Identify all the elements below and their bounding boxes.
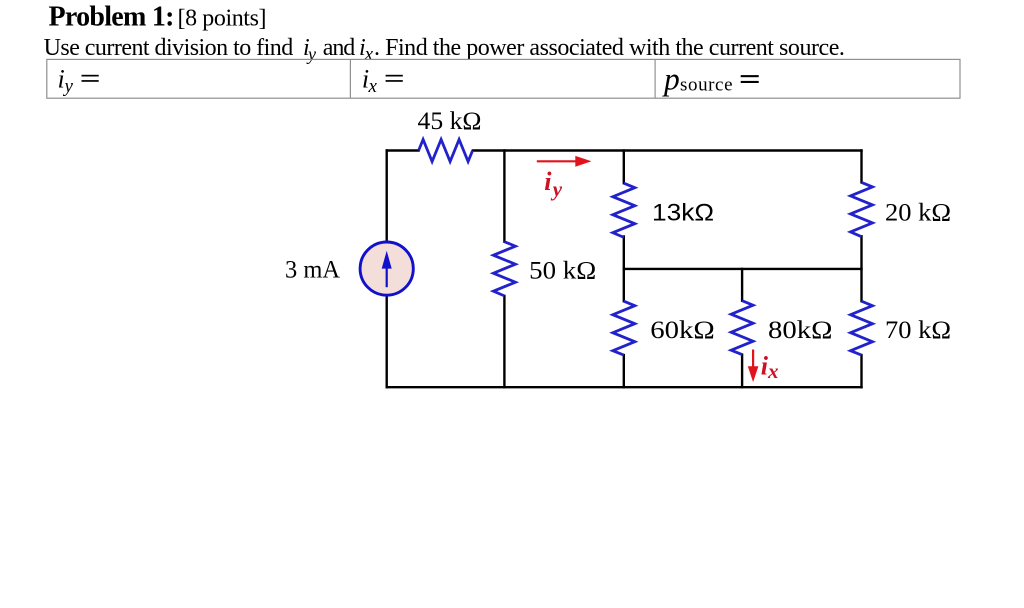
- wire 50k branch upper: [503, 151, 505, 242]
- svg-text:i: i: [544, 167, 552, 196]
- wire right rail lower: [860, 355, 862, 387]
- current arrow iy: [537, 156, 592, 167]
- table label iy =: [58, 65, 99, 98]
- resistor 60k zigzag: [613, 301, 635, 355]
- svg-text:and: and: [323, 35, 356, 61]
- current source arrow: [382, 251, 392, 287]
- wire left rail lower: [386, 296, 388, 388]
- wire top rail right segment: [473, 149, 862, 151]
- answer table box: [47, 59, 960, 98]
- wire bottom rail: [387, 386, 862, 388]
- svg-text:y: y: [63, 76, 74, 97]
- svg-text:3 mA: 3 mA: [285, 257, 340, 284]
- svg-text:p: p: [662, 61, 680, 96]
- wire right rail middle: [860, 236, 862, 301]
- svg-text:x: x: [368, 76, 378, 97]
- svg-text:x: x: [767, 359, 779, 383]
- current source 3mA circle: [360, 242, 413, 295]
- svg-text:70 kΩ: 70 kΩ: [885, 317, 951, 344]
- wire left rail upper: [386, 151, 388, 242]
- svg-text:45 kΩ: 45 kΩ: [418, 108, 482, 135]
- svg-text:y: y: [550, 177, 563, 201]
- svg-text:Problem 1:: Problem 1:: [49, 2, 175, 33]
- wire top rail left segment: [387, 149, 419, 151]
- resistor 70k zigzag: [851, 301, 873, 355]
- svg-text:Use current division to find: Use current division to find: [44, 35, 294, 61]
- svg-text:x: x: [364, 44, 374, 65]
- wire 60k branch lower: [623, 355, 625, 387]
- table label ix =: [362, 65, 403, 98]
- wire right rail upper: [860, 151, 862, 183]
- wire 80k branch lower: [741, 355, 743, 388]
- resistor 20k zigzag: [851, 182, 873, 236]
- svg-text:60kΩ: 60kΩ: [650, 317, 715, 344]
- svg-text:80kΩ: 80kΩ: [768, 317, 833, 344]
- wire 13k branch upper: [623, 151, 625, 184]
- svg-text:20 kΩ: 20 kΩ: [885, 200, 951, 227]
- svg-text:. Find the power associated wi: . Find the power associated with the cur…: [374, 35, 845, 61]
- svg-text:[8 points]: [8 points]: [178, 6, 267, 32]
- wire 50k branch lower: [503, 296, 505, 387]
- title line 2: problem statement: [44, 35, 845, 65]
- wire middle rail: [624, 268, 862, 270]
- svg-text:13kΩ: 13kΩ: [652, 200, 714, 227]
- wire 13k-60k branch middle: [623, 236, 625, 301]
- resistor 45k zigzag: [419, 140, 473, 162]
- wire 80k branch upper: [741, 269, 743, 301]
- resistor 13k zigzag: [613, 183, 635, 237]
- svg-text:50 kΩ: 50 kΩ: [529, 258, 596, 285]
- resistor 50k zigzag: [493, 242, 515, 296]
- resistor 80k zigzag: [731, 301, 753, 355]
- current arrow ix: [748, 350, 759, 383]
- svg-text:y: y: [306, 44, 316, 64]
- table label psource =: [662, 61, 759, 96]
- svg-text:source: source: [680, 75, 733, 96]
